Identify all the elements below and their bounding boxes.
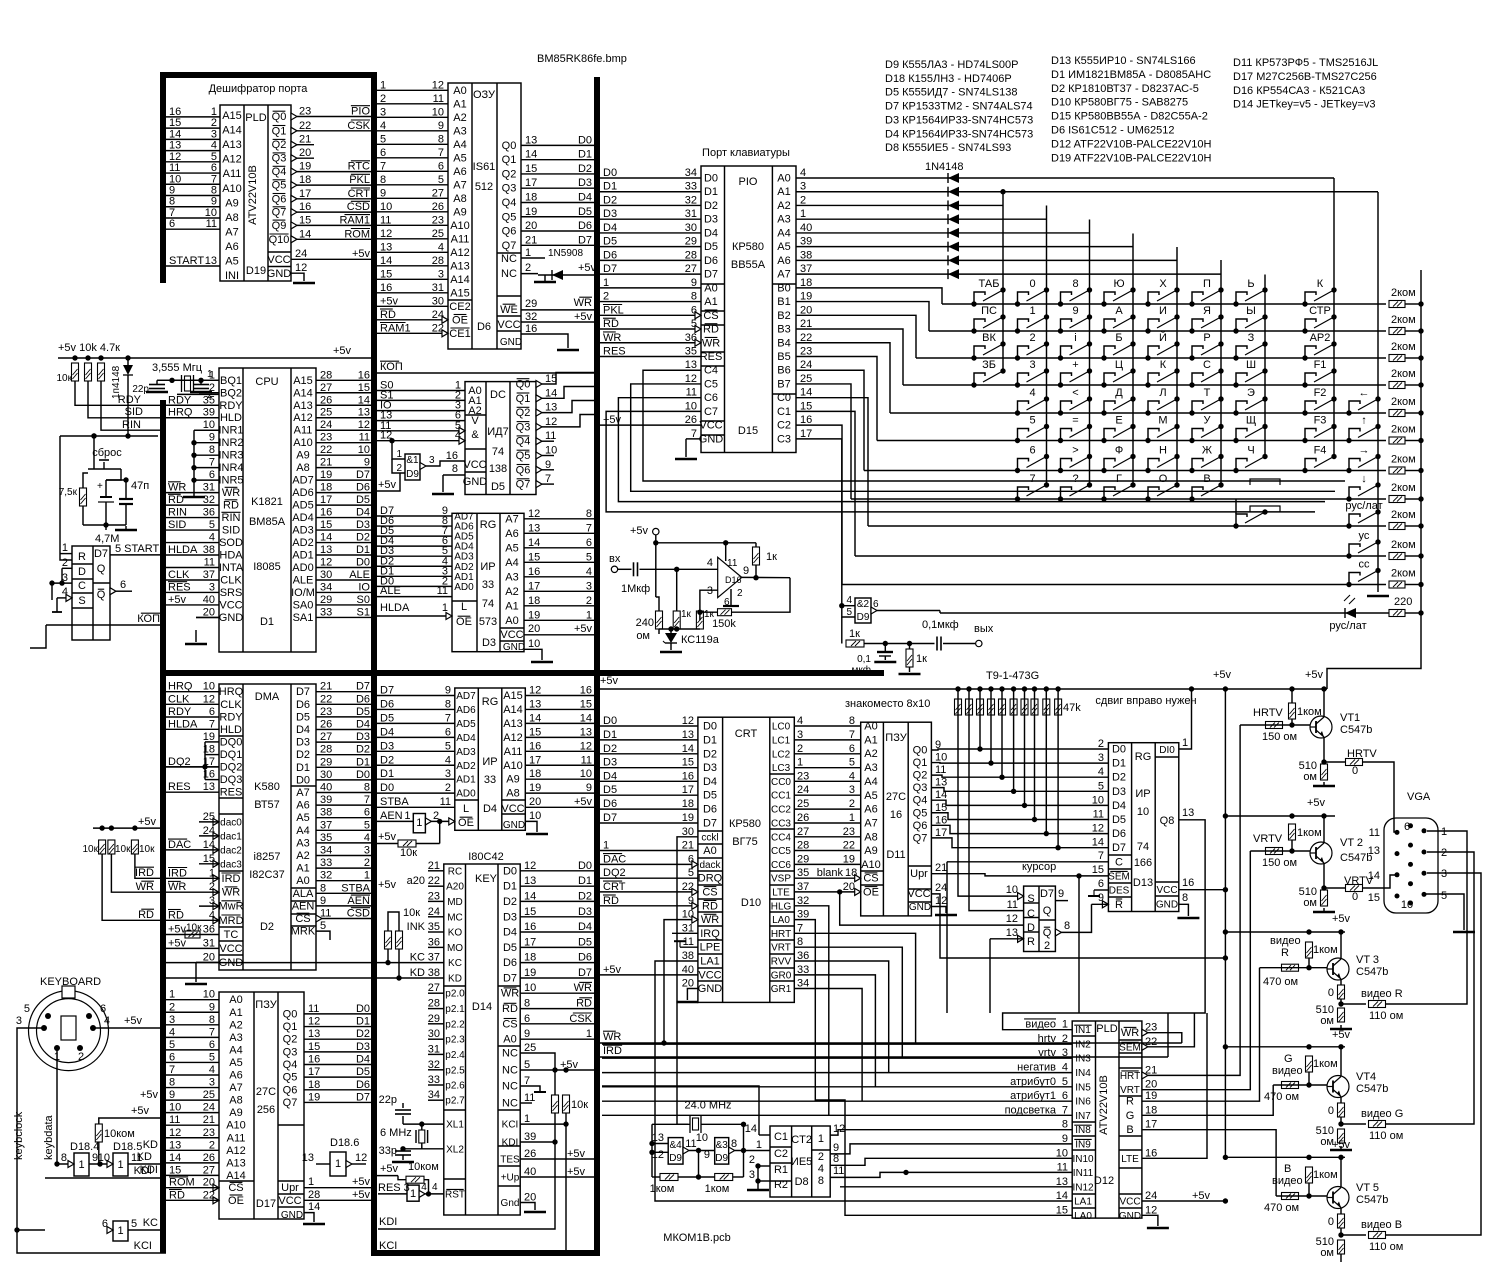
- svg-text:5: 5: [1098, 780, 1104, 792]
- svg-text:11: 11: [524, 1092, 535, 1104]
- wire D10 CC4 pin 27: [794, 836, 860, 838]
- resistor 47k #6: [1011, 686, 1016, 691]
- svg-text:Л: Л: [1159, 387, 1166, 399]
- wire D10 LTE pin 37: [794, 891, 860, 893]
- svg-text:17: 17: [935, 827, 947, 839]
- svg-text:8: 8: [586, 508, 592, 520]
- resistor 47k #9: [1044, 686, 1049, 691]
- svg-text:7: 7: [849, 729, 855, 741]
- svg-text:1: 1: [169, 989, 175, 1001]
- svg-text:A2: A2: [453, 112, 466, 124]
- svg-text:13: 13: [203, 781, 215, 793]
- svg-text:PKL: PKL: [603, 304, 624, 316]
- svg-text:TES: TES: [500, 1155, 520, 1166]
- IC D12 PLD ATV22V10B video: [1072, 1021, 1142, 1218]
- svg-text:D3: D3: [578, 177, 592, 189]
- comparator ground pins: [730, 589, 732, 606]
- svg-text:BQ1: BQ1: [220, 375, 242, 387]
- keyboard row wire 2: [916, 357, 1386, 359]
- svg-text:9: 9: [1062, 1133, 1068, 1145]
- svg-text:D7: D7: [356, 681, 370, 693]
- resistor 47k #8: [1032, 686, 1037, 691]
- ground below zener: [660, 651, 682, 654]
- svg-text:<: <: [1072, 387, 1078, 399]
- IC D7.2 cursor flip-flop: [1024, 886, 1056, 951]
- svg-text:6: 6: [102, 1218, 108, 1230]
- key switch F3: [1302, 438, 1307, 443]
- svg-text:VT4: VT4: [1356, 1071, 1376, 1083]
- svg-text:D9 К555ЛА3 - HD74LS00P: D9 К555ЛА3 - HD74LS00P: [885, 59, 1018, 71]
- wire KD to bus: [128, 1163, 166, 1165]
- wire D10 D1 pin 13: [600, 739, 698, 741]
- svg-text:D12 ATF22V10B-PALCE22V10H: D12 ATF22V10B-PALCE22V10H: [1051, 138, 1211, 150]
- wires D5 outputs Q4-Q7 stubs: [542, 440, 554, 442]
- svg-text:A13: A13: [450, 260, 470, 272]
- svg-text:+5v: +5v: [131, 1105, 150, 1117]
- wire D4 AD5 pin 7: [377, 722, 455, 724]
- svg-text:RD: RD: [603, 895, 619, 907]
- svg-text:Q2: Q2: [516, 407, 531, 419]
- wire KCI: [16, 1230, 18, 1241]
- svg-text:5: 5: [1062, 1076, 1068, 1088]
- svg-text:7,5к: 7,5к: [59, 487, 78, 498]
- svg-text:+5v: +5v: [380, 1163, 399, 1175]
- svg-text:10: 10: [169, 1102, 181, 1114]
- svg-text:12: 12: [203, 693, 215, 705]
- wire D17 Q6 D6: [304, 1089, 371, 1091]
- svg-text:2: 2: [586, 595, 592, 607]
- svg-text:1: 1: [603, 840, 609, 852]
- wire D2 HLD pin 7: [166, 728, 219, 730]
- svg-text:+5v: +5v: [574, 311, 593, 323]
- svg-text:12: 12: [580, 740, 592, 752]
- svg-text:4: 4: [586, 566, 592, 578]
- svg-text:24: 24: [320, 419, 332, 431]
- svg-text:33: 33: [797, 964, 809, 976]
- resistor 10k to +5v: [439, 821, 441, 843]
- svg-text:0,1: 0,1: [857, 654, 871, 665]
- svg-text:З: З: [1248, 332, 1255, 344]
- svg-text:D0: D0: [1112, 744, 1126, 756]
- svg-text:KC: KC: [143, 1217, 158, 1229]
- svg-text:12: 12: [1145, 1204, 1157, 1216]
- svg-text:9: 9: [1072, 305, 1078, 317]
- wire D6 A13 pin 28: [377, 265, 448, 267]
- ground for reset RC: [125, 526, 127, 530]
- svg-text:13: 13: [1182, 807, 1194, 819]
- svg-text:A7: A7: [453, 179, 466, 191]
- svg-text:Q4: Q4: [272, 166, 287, 178]
- wire D10 VCC pin 40: [600, 974, 698, 976]
- svg-text:A12: A12: [222, 154, 242, 166]
- wire D17 A14 pin 27: [166, 1174, 219, 1176]
- svg-text:38: 38: [203, 544, 215, 556]
- svg-text:39: 39: [203, 407, 215, 419]
- svg-text:SEM: SEM: [1119, 1042, 1141, 1053]
- svg-text:CC0: CC0: [771, 777, 791, 788]
- svg-text:D5: D5: [380, 712, 394, 724]
- svg-text:30: 30: [428, 1028, 440, 1040]
- svg-text:CC1: CC1: [771, 791, 791, 802]
- svg-text:INR3: INR3: [218, 450, 243, 462]
- svg-text:CRT: CRT: [735, 728, 758, 740]
- svg-text:A8: A8: [225, 212, 238, 224]
- svg-text:IRD: IRD: [135, 867, 154, 879]
- svg-text:VCC: VCC: [219, 599, 242, 611]
- zener KC119a: [670, 629, 672, 633]
- wire D5 input IO pin 3: [377, 410, 465, 412]
- svg-text:KCI: KCI: [379, 1240, 397, 1252]
- key switch Ь: [1233, 301, 1238, 306]
- svg-text:14: 14: [1368, 870, 1380, 882]
- wire D10 GND pin 20: [687, 989, 698, 1001]
- svg-text:CRT: CRT: [348, 188, 371, 200]
- svg-text:Т9-1-473G: Т9-1-473G: [986, 670, 1039, 682]
- svg-text:CC4: CC4: [771, 832, 791, 843]
- svg-text:LA0: LA0: [1074, 1211, 1092, 1222]
- svg-text:A0: A0: [864, 721, 877, 733]
- wire D6 A7 pin 5: [377, 184, 448, 186]
- wire D2 MRD pin 4: [166, 919, 219, 921]
- svg-text:RAM1: RAM1: [339, 214, 370, 226]
- svg-text:40: 40: [320, 782, 332, 794]
- svg-text:A12: A12: [293, 412, 313, 424]
- svg-text:видео: видео: [1025, 1019, 1056, 1031]
- svg-text:+5v: +5v: [1192, 1190, 1211, 1202]
- svg-text:R: R: [1115, 899, 1123, 911]
- wire D2 DQ2 pin 17: [166, 766, 219, 768]
- svg-text:15: 15: [380, 268, 392, 280]
- svg-text:RDY: RDY: [168, 706, 192, 718]
- svg-text:A10: A10: [861, 859, 881, 871]
- wire D6 NC pin 1: [521, 257, 545, 259]
- wire D2 IRD pin 1: [166, 877, 219, 879]
- wire D2 GND pin 20: [196, 961, 219, 963]
- svg-text:36: 36: [797, 950, 809, 962]
- svg-text:A14: A14: [503, 704, 523, 716]
- svg-text:WR: WR: [702, 337, 720, 349]
- key switch <: [1058, 410, 1063, 415]
- svg-text:Q3: Q3: [516, 421, 531, 433]
- svg-text:2: 2: [62, 557, 68, 569]
- svg-text:18: 18: [529, 768, 541, 780]
- svg-text:11: 11: [440, 796, 451, 808]
- svg-text:4: 4: [1098, 766, 1104, 778]
- diode 1N4148 on A0: [947, 173, 949, 183]
- key switch рус/лат: [1346, 523, 1351, 528]
- svg-text:A12: A12: [503, 732, 523, 744]
- svg-text:27: 27: [432, 187, 444, 199]
- svg-text:D0: D0: [704, 173, 718, 185]
- svg-text:AD1: AD1: [292, 550, 313, 562]
- svg-text:13: 13: [380, 241, 392, 253]
- svg-text:D0: D0: [380, 782, 394, 794]
- svg-text:8: 8: [209, 444, 215, 456]
- svg-text:Э: Э: [1247, 387, 1255, 399]
- wire D19 pin 4: [166, 150, 220, 152]
- svg-text:A0: A0: [505, 615, 518, 627]
- key switch F2: [1302, 410, 1307, 415]
- keyboard row wire 6: [864, 470, 1386, 472]
- wire D17 A2 pin 8: [166, 1024, 219, 1026]
- svg-text:8: 8: [61, 1152, 67, 1164]
- svg-text:2: 2: [209, 1139, 215, 1151]
- svg-text:7: 7: [586, 522, 592, 534]
- svg-text:?: ?: [1072, 473, 1078, 485]
- svg-text:6: 6: [169, 1051, 175, 1063]
- svg-text:IN12: IN12: [1072, 1182, 1094, 1193]
- svg-text:17: 17: [528, 580, 540, 592]
- svg-text:ATV22V10B: ATV22V10B: [247, 165, 259, 225]
- svg-text:D7: D7: [380, 685, 394, 697]
- svg-text:D5 К555ИД7 - SN74LS138: D5 К555ИД7 - SN74LS138: [885, 87, 1017, 99]
- svg-text:GND: GND: [219, 612, 244, 624]
- svg-text:CS: CS: [863, 873, 878, 885]
- svg-text:12: 12: [380, 228, 392, 240]
- svg-text:13: 13: [169, 140, 181, 152]
- wire KOP to flip-flop: [46, 624, 160, 626]
- svg-text:13: 13: [682, 729, 694, 741]
- svg-text:←: ←: [1359, 387, 1370, 399]
- bus frame horizontal bar bottom: [371, 1250, 600, 1256]
- svg-text:34: 34: [320, 845, 332, 857]
- svg-text:IN2: IN2: [1075, 1040, 1091, 1051]
- svg-text:HLD: HLD: [220, 724, 242, 736]
- svg-text:33: 33: [685, 181, 697, 193]
- wire D2 D1 pin 29: [316, 766, 371, 768]
- svg-text:32: 32: [797, 895, 809, 907]
- svg-text:SID: SID: [168, 519, 186, 531]
- svg-text:33: 33: [484, 774, 496, 786]
- keyboard row wire 9: [855, 555, 1386, 557]
- svg-text:ом: ом: [636, 630, 650, 642]
- svg-text:A7: A7: [505, 513, 518, 525]
- wire D14 NC pin 25: [520, 1053, 555, 1095]
- svg-text:4: 4: [209, 532, 215, 544]
- svg-text:21: 21: [203, 1114, 215, 1126]
- svg-text:Q9: Q9: [272, 220, 287, 232]
- svg-text:DQ1: DQ1: [220, 749, 243, 761]
- svg-text:12: 12: [295, 262, 307, 274]
- comparator triangle D16: [718, 557, 742, 597]
- svg-text:10: 10: [1137, 806, 1149, 818]
- svg-text:23: 23: [428, 890, 440, 902]
- svg-text:7: 7: [524, 1075, 530, 1087]
- wire D17 Q0 D0: [304, 1013, 371, 1015]
- svg-text:8: 8: [1062, 1119, 1068, 1131]
- wire D4 A10 pin 17: [525, 764, 594, 766]
- svg-text:13: 13: [1368, 845, 1380, 857]
- svg-text:a20: a20: [407, 875, 425, 887]
- svg-text:+5v: +5v: [578, 262, 597, 274]
- svg-text:Q6: Q6: [516, 464, 531, 476]
- svg-text:SA0: SA0: [293, 599, 314, 611]
- svg-text:D7: D7: [356, 1091, 370, 1103]
- svg-text:22: 22: [843, 840, 855, 852]
- wire D15 D5 pin 29: [600, 246, 701, 248]
- svg-text:110 ом: 110 ом: [1369, 1010, 1403, 1022]
- svg-text:6: 6: [1029, 445, 1035, 457]
- svg-text:D7: D7: [603, 263, 617, 275]
- svg-text:D7: D7: [503, 973, 517, 985]
- svg-text:Q5: Q5: [913, 807, 928, 819]
- svg-text:ом: ом: [1303, 897, 1317, 909]
- svg-text:6: 6: [209, 706, 215, 718]
- svg-text:D2: D2: [578, 163, 592, 175]
- svg-text:D15 КР580ВВ55А - D82С55А-2: D15 КР580ВВ55А - D82С55А-2: [1051, 111, 1208, 123]
- svg-text:16: 16: [528, 566, 540, 578]
- svg-text:p2.3: p2.3: [445, 1035, 465, 1046]
- svg-text:7: 7: [364, 794, 370, 806]
- svg-text:AD0: AD0: [456, 789, 476, 800]
- svg-text:7: 7: [169, 1064, 175, 1076]
- svg-text:D3: D3: [296, 737, 310, 749]
- svg-text:BQ2: BQ2: [220, 387, 242, 399]
- svg-text:13: 13: [685, 359, 697, 371]
- wire D3 OE pin 1 HLDA: [377, 615, 452, 617]
- ground symbol below D6: [557, 349, 579, 352]
- svg-text:27: 27: [320, 731, 332, 743]
- svg-text:D2: D2: [296, 749, 310, 761]
- svg-text:14: 14: [682, 743, 694, 755]
- diode 1N4148 on A1: [947, 187, 949, 197]
- svg-text:1: 1: [442, 602, 448, 614]
- svg-text:MC: MC: [447, 912, 463, 923]
- svg-text:D0: D0: [296, 774, 310, 786]
- key switch Ш: [1233, 382, 1238, 387]
- svg-text:15: 15: [169, 1164, 181, 1176]
- key switch arrow →: [1346, 468, 1351, 473]
- svg-text:dac3: dac3: [220, 859, 242, 870]
- wire D2 A6 pin 39: [316, 804, 371, 806]
- svg-text:11: 11: [545, 430, 556, 442]
- svg-text:Q7: Q7: [913, 832, 928, 844]
- svg-text:+5v: +5v: [1332, 1139, 1351, 1151]
- svg-text:ИЕ5: ИЕ5: [791, 1156, 812, 1168]
- wire D17 A5 pin 5: [166, 1061, 219, 1063]
- wire D6 A11 pin 25: [377, 238, 448, 240]
- svg-text:4: 4: [421, 1182, 427, 1193]
- svg-text:D7: D7: [578, 234, 592, 246]
- svg-text:Q2: Q2: [913, 770, 928, 782]
- svg-text:8: 8: [1064, 920, 1070, 932]
- wire D15 GND pin 7: [686, 438, 701, 440]
- svg-text:8: 8: [209, 1014, 215, 1026]
- svg-text:i8257: i8257: [254, 851, 281, 863]
- svg-text:INR1: INR1: [218, 425, 243, 437]
- svg-text:24: 24: [797, 784, 809, 796]
- IC D8 counter IE5 CT2: [770, 1126, 830, 1197]
- IC D5 decoder ID7 74138: [465, 382, 536, 495]
- svg-text:Й: Й: [1159, 331, 1167, 344]
- svg-text:9: 9: [586, 782, 592, 794]
- svg-text:8: 8: [364, 782, 370, 794]
- svg-text:B3: B3: [777, 324, 790, 336]
- svg-text:15: 15: [320, 519, 332, 531]
- svg-text:D1: D1: [578, 149, 592, 161]
- wire D17 A12 pin 2: [166, 1149, 219, 1151]
- svg-text:11: 11: [204, 557, 215, 569]
- svg-text:17: 17: [525, 177, 537, 189]
- wire D10 IRQ pin 31: [672, 932, 698, 934]
- svg-text:A10: A10: [222, 183, 242, 195]
- svg-text:B1: B1: [777, 296, 790, 308]
- svg-text:p2.6: p2.6: [445, 1081, 465, 1092]
- svg-text:10: 10: [358, 444, 370, 456]
- svg-text:RDY: RDY: [219, 712, 243, 724]
- svg-text:14: 14: [745, 1123, 757, 1135]
- svg-text:8: 8: [211, 185, 217, 197]
- svg-text:13: 13: [529, 698, 541, 710]
- svg-text:GND: GND: [281, 1210, 303, 1221]
- svg-text:D12: D12: [1094, 1175, 1114, 1187]
- wire D19 VCC +5v: [291, 258, 371, 260]
- svg-text:26: 26: [685, 414, 697, 426]
- svg-text:8: 8: [731, 1138, 737, 1150]
- wire D3 VCC pin 20: [524, 634, 594, 636]
- svg-text:D6 IS61С512 - UM62512: D6 IS61С512 - UM62512: [1051, 125, 1175, 137]
- svg-text:GND: GND: [503, 820, 525, 831]
- wire D11 Q4 to D13 D4: [931, 800, 1108, 805]
- wire D5 GND pin 8 to ground: [443, 474, 465, 476]
- wire D14 A0 pin 9: [520, 1038, 594, 1040]
- wire D10 WR pin 10: [664, 920, 698, 1043]
- svg-text:MRK: MRK: [291, 926, 316, 938]
- wire D4 A11 pin 16: [525, 750, 594, 752]
- wire C3 riser to gate: [839, 603, 844, 608]
- svg-text:16: 16: [524, 921, 536, 933]
- svg-text:CPU: CPU: [255, 376, 278, 388]
- svg-text:У: У: [1204, 415, 1212, 427]
- svg-text:3: 3: [429, 455, 435, 466]
- svg-text:C: C: [1115, 856, 1123, 868]
- svg-text:3: 3: [1029, 359, 1035, 371]
- svg-text:A3: A3: [864, 762, 877, 774]
- pull-up resistors 2kom: [1389, 301, 1405, 308]
- svg-text:BM85A: BM85A: [249, 516, 286, 528]
- svg-text:ВВ55А: ВВ55А: [731, 259, 766, 271]
- wire D19 pin 9: [166, 206, 220, 208]
- svg-text:Q6: Q6: [913, 820, 928, 832]
- svg-text:1: 1: [380, 79, 386, 91]
- svg-text:D5: D5: [296, 711, 310, 723]
- svg-text:11: 11: [581, 754, 592, 766]
- wire D8 R2 pin 3: [758, 1180, 770, 1182]
- CPU interrupt inputs INR1-INR5 tied low: [194, 429, 219, 431]
- svg-text:Q0: Q0: [502, 140, 517, 152]
- svg-text:D6: D6: [380, 698, 394, 710]
- svg-text:D1: D1: [356, 544, 370, 556]
- svg-text:13: 13: [302, 1152, 314, 1164]
- wire D4 VCC pin 20: [502, 799, 526, 801]
- wire D1 RIN pin 36: [166, 517, 219, 519]
- svg-text:19: 19: [203, 731, 215, 743]
- svg-text:D17: D17: [256, 1198, 276, 1210]
- svg-text:5: 5: [209, 519, 215, 531]
- wire D10 LC2 pin 2: [794, 753, 860, 755]
- svg-text:23: 23: [797, 770, 809, 782]
- svg-text:D2: D2: [578, 890, 592, 902]
- svg-text:+5v: +5v: [1332, 1029, 1351, 1041]
- svg-text:Q3: Q3: [502, 183, 517, 195]
- svg-text:DQ2: DQ2: [603, 867, 626, 879]
- svg-text:↑: ↑: [1361, 415, 1367, 427]
- key switch Э: [1233, 410, 1238, 415]
- svg-text:2: 2: [1029, 332, 1035, 344]
- key switch 4: [1015, 410, 1020, 415]
- wire D10 CC3 pin 26: [794, 822, 860, 824]
- wire D17 A11 pin 23: [166, 1137, 219, 1139]
